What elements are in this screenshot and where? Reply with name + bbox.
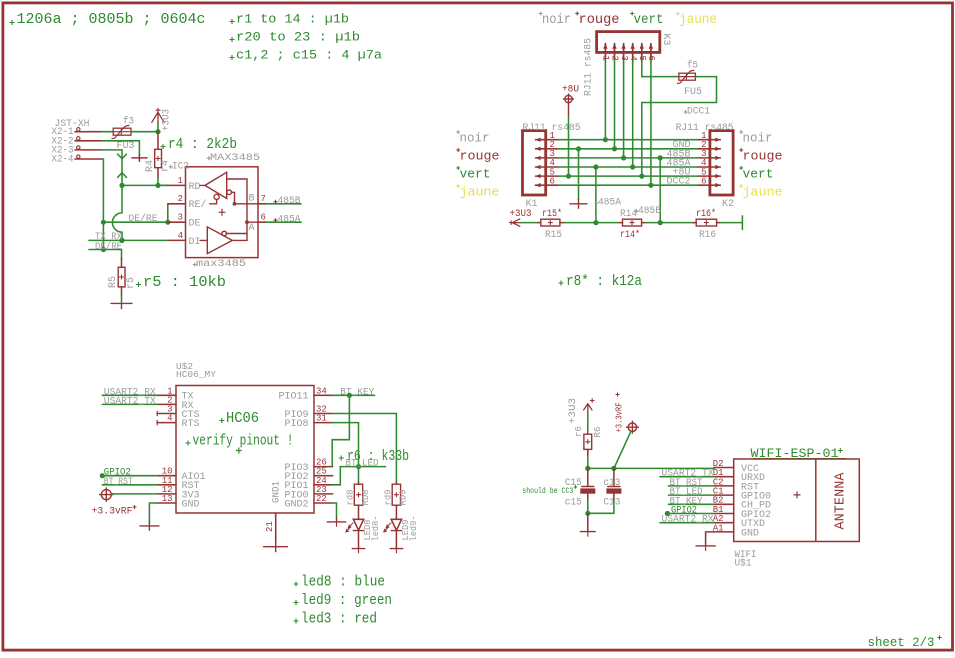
wire K3 pin1 down bbox=[604, 63, 606, 140]
label FU3 bbox=[117, 141, 135, 152]
pin 3 CTS of HC06 bbox=[157, 405, 199, 421]
label R6 bbox=[592, 426, 603, 437]
wire 485B drop bbox=[659, 158, 661, 223]
pin A2 UTXD of ESP bbox=[713, 514, 765, 530]
label R15 bbox=[545, 230, 562, 241]
svg-text:B: B bbox=[249, 193, 255, 204]
resistor R14 bbox=[619, 219, 644, 226]
node junction bbox=[593, 164, 598, 169]
note text c1,2 ; c15 : 4 u7a bbox=[230, 47, 383, 62]
pin C2 RST of ESP bbox=[713, 477, 759, 493]
pin 3 DE of IC2 bbox=[168, 213, 201, 230]
svg-text:noir: noir bbox=[460, 131, 490, 146]
label IC2 bbox=[169, 161, 189, 172]
svg-text:1: 1 bbox=[601, 56, 611, 61]
node junction bbox=[630, 164, 635, 169]
svg-text:U$1: U$1 bbox=[735, 557, 752, 569]
driver triangle inside IC2 bbox=[200, 227, 232, 254]
label r16* bbox=[696, 208, 716, 220]
label C15 bbox=[565, 478, 582, 489]
pin 34 PIO11 of HC06 bbox=[278, 386, 332, 402]
pin 4 of K3 bbox=[628, 43, 638, 62]
wire K3 pin2 down bbox=[614, 63, 616, 149]
svg-text:rouge: rouge bbox=[460, 149, 500, 164]
wire K3 pin5 to fuse FU5 bbox=[642, 63, 679, 77]
svg-text:7: 7 bbox=[261, 194, 266, 204]
wire DE/RE to gate pins bbox=[103, 221, 167, 223]
svg-text:HC06_MY: HC06_MY bbox=[176, 369, 216, 380]
label U$1 bbox=[735, 557, 752, 569]
resistor R6 bbox=[584, 431, 592, 468]
pin 21 GND1 of HC06 bbox=[265, 481, 283, 542]
wire fuse F3 to +3V3 node bbox=[131, 131, 158, 133]
svg-text:6: 6 bbox=[701, 176, 706, 186]
pin 32 PIO9 of HC06 bbox=[284, 405, 332, 421]
resistor R16 bbox=[693, 219, 720, 226]
svg-text:f5: f5 bbox=[687, 60, 698, 72]
internal net B bbox=[227, 179, 259, 240]
wire VCC row to ESP bbox=[588, 467, 714, 469]
node junction bbox=[639, 174, 644, 179]
colour word vert side bbox=[456, 166, 490, 182]
svg-text:485A: 485A bbox=[278, 215, 301, 226]
svg-text:X2-4: X2-4 bbox=[52, 155, 74, 166]
wire TX_RX from edge bbox=[89, 239, 168, 241]
svg-text:R14: R14 bbox=[620, 209, 637, 220]
pin 6 of K1 bbox=[535, 176, 558, 187]
svg-text:r15*: r15* bbox=[542, 208, 562, 220]
label c13 bbox=[603, 478, 620, 489]
svg-text:6: 6 bbox=[646, 56, 656, 61]
node 485A on row bbox=[593, 220, 598, 225]
wire pin32 to RD9 bbox=[333, 414, 397, 483]
label DE/RE edge bbox=[95, 241, 122, 253]
svg-text:led8-: led8- bbox=[370, 516, 381, 542]
svg-text:MAX3485: MAX3485 bbox=[210, 153, 260, 164]
net USART2_RX bbox=[102, 387, 157, 398]
resistor RD9 bbox=[392, 482, 400, 519]
note text verify pinout ! bbox=[186, 432, 294, 449]
note text r20 to 23 : u1b bbox=[230, 29, 361, 44]
svg-text:GND: GND bbox=[182, 499, 200, 510]
node DE/RE top junction bbox=[101, 220, 106, 225]
net USART2_TX bbox=[102, 396, 157, 407]
node junction bbox=[612, 146, 617, 151]
svg-text:+3.3vRF: +3.3vRF bbox=[92, 507, 133, 518]
pin 4 RTS of HC06 bbox=[157, 414, 199, 430]
pin A1 GND of ESP bbox=[713, 523, 759, 539]
svg-text:RD8: RD8 bbox=[360, 489, 371, 505]
svg-text:RD9: RD9 bbox=[398, 489, 409, 505]
svg-text:rouge: rouge bbox=[579, 12, 620, 28]
pin 1 of K2 bbox=[698, 131, 721, 142]
svg-text:A: A bbox=[249, 223, 255, 234]
pin 2 of K2 bbox=[698, 140, 721, 151]
net BT_KEY at pin34 bbox=[333, 387, 375, 398]
note text r1 to 14 : u1b bbox=[230, 11, 350, 26]
svg-text:6: 6 bbox=[550, 176, 555, 186]
svg-text:USART2_TX: USART2_TX bbox=[104, 396, 156, 407]
wire X2-4 down bbox=[102, 159, 103, 250]
wire K3 pin3 down bbox=[623, 63, 625, 158]
pin C1 GPIO0 of ESP bbox=[713, 487, 771, 503]
label K2 bbox=[722, 199, 734, 210]
pin X2-1 bbox=[75, 128, 102, 132]
colour word noir side bbox=[739, 130, 772, 146]
wire pin31 to RD8 bbox=[333, 423, 359, 482]
label c15 bbox=[565, 497, 582, 508]
label C13 bbox=[603, 497, 620, 508]
net GPIO2 at ESP bbox=[665, 506, 714, 517]
net BT_KEY at ESP bbox=[669, 496, 714, 507]
svg-text:BT_KEY: BT_KEY bbox=[340, 387, 374, 398]
pin 3 of K2 bbox=[698, 149, 721, 160]
label rd9 bbox=[382, 489, 393, 505]
pin 25 PIO2 of HC06 bbox=[284, 467, 332, 483]
bubble receiver out bbox=[227, 190, 235, 195]
label RJ11 rs485 above K2 bbox=[676, 123, 734, 134]
node junction bbox=[621, 155, 626, 160]
svg-text:+3U3: +3U3 bbox=[510, 209, 532, 220]
svg-text:rd8: rd8 bbox=[345, 489, 356, 505]
svg-text:RJ11 rs485: RJ11 rs485 bbox=[584, 38, 595, 96]
node VCC junction R6 bbox=[585, 466, 590, 471]
note text led3 : red bbox=[294, 611, 378, 628]
net label 485B at K2 bbox=[666, 149, 690, 160]
internal net A bbox=[232, 220, 258, 240]
pin 3 of K3 bbox=[619, 43, 629, 62]
svg-text:ANTENNA: ANTENNA bbox=[833, 472, 848, 530]
node junction bbox=[576, 146, 581, 151]
colour word vert top bbox=[630, 12, 663, 29]
label f3 bbox=[123, 116, 134, 128]
node DE/RE bottom junction bbox=[101, 247, 106, 252]
svg-text:C13: C13 bbox=[603, 497, 620, 508]
pin D2 VCC of ESP bbox=[713, 459, 759, 475]
capacitor C15 bbox=[580, 468, 595, 513]
wire BT_KEY to pin26 bbox=[332, 395, 349, 466]
label R16 bbox=[699, 230, 716, 241]
label FU5 bbox=[684, 87, 702, 98]
label K3 bbox=[660, 34, 671, 46]
svg-text:DI: DI bbox=[189, 237, 201, 248]
svg-text:PIO8: PIO8 bbox=[284, 419, 308, 430]
supply +3V3 arrow left bbox=[509, 209, 532, 226]
svg-text:led8 : blue: led8 : blue bbox=[301, 574, 385, 591]
svg-text:DCC1: DCC1 bbox=[687, 107, 710, 118]
svg-text:R6: R6 bbox=[592, 426, 603, 437]
node junction bbox=[648, 183, 653, 188]
net 485B stub bbox=[267, 196, 302, 207]
label led9- bbox=[408, 516, 419, 542]
pin X2-2 bbox=[75, 137, 102, 141]
svg-text:DCC2: DCC2 bbox=[666, 177, 690, 188]
svg-text:1206a ; 0805b ; 0604c: 1206a ; 0805b ; 0604c bbox=[17, 11, 206, 28]
svg-text:noir: noir bbox=[542, 12, 571, 28]
svg-text:r20 to 23 : µ1b: r20 to 23 : µ1b bbox=[236, 29, 360, 44]
LED LED9 bbox=[384, 519, 402, 532]
svg-text:led3 : red: led3 : red bbox=[301, 611, 377, 628]
pin 5 of K2 bbox=[698, 167, 721, 178]
svg-text:3: 3 bbox=[178, 213, 183, 223]
svg-text:vert: vert bbox=[743, 167, 774, 182]
svg-text:vert: vert bbox=[460, 167, 491, 182]
IC2 origin cross bbox=[219, 209, 226, 216]
ground below LED9 bbox=[390, 531, 402, 553]
svg-text:1: 1 bbox=[178, 176, 183, 186]
supply +3.3vRF circle left bbox=[100, 488, 113, 501]
svg-text:485A: 485A bbox=[598, 198, 621, 209]
wire K3 pin4 down bbox=[632, 63, 634, 168]
node junction bbox=[603, 137, 608, 142]
svg-text:jaune: jaune bbox=[460, 185, 500, 200]
wire K1-5 to K2-5 bbox=[559, 175, 698, 177]
label f5 bbox=[687, 60, 698, 72]
note text WIFI-ESP-01 bbox=[751, 446, 846, 461]
svg-text:+8U: +8U bbox=[562, 84, 579, 95]
label max3485 bbox=[193, 259, 246, 270]
colour word noir side bbox=[456, 130, 489, 146]
ESP origin cross bbox=[794, 491, 801, 498]
svg-text:noir: noir bbox=[743, 131, 773, 146]
label rd8 bbox=[345, 489, 356, 505]
pin 26 PIO3 of HC06 bbox=[284, 458, 332, 474]
pin 11 RST of HC06 bbox=[157, 476, 199, 492]
HC06 origin cross bbox=[236, 448, 242, 454]
ground below R5 bbox=[111, 296, 132, 309]
svg-text:DE/RE: DE/RE bbox=[95, 241, 122, 253]
pin 3 of K1 bbox=[535, 149, 558, 160]
pin 1 of K3 bbox=[601, 43, 611, 62]
ground below LED8 bbox=[352, 531, 364, 553]
svg-text:r4: r4 bbox=[160, 160, 171, 172]
svg-text:jaune: jaune bbox=[679, 12, 717, 28]
svg-text:BT_RST: BT_RST bbox=[104, 477, 133, 488]
bubble driver enable bbox=[222, 231, 227, 236]
connector K1 RJ11 body bbox=[523, 131, 546, 195]
colour word rouge side bbox=[739, 148, 782, 164]
label r4 bbox=[160, 160, 171, 172]
svg-text:R4: R4 bbox=[145, 160, 156, 172]
net label DCC2 at K2 bbox=[666, 177, 690, 188]
pin 12 3V3 of HC06 bbox=[157, 485, 199, 501]
net 485A stub bbox=[267, 215, 302, 226]
net BT_LED wire bbox=[333, 467, 386, 485]
svg-text:5: 5 bbox=[637, 56, 647, 61]
label RD8 bbox=[360, 489, 371, 505]
node 485B on row bbox=[658, 220, 663, 225]
note text led9 : green bbox=[294, 592, 393, 609]
svg-text:r6 : k33b: r6 : k33b bbox=[347, 448, 409, 465]
pin 2 of K3 bbox=[610, 43, 620, 62]
colour word rouge side bbox=[456, 148, 499, 164]
svg-text:6: 6 bbox=[261, 213, 266, 223]
module U$2 HC06 body bbox=[176, 386, 314, 514]
pin 4 of K1 bbox=[535, 158, 558, 169]
pin D1 URXD of ESP bbox=[713, 468, 765, 484]
wire termination row bbox=[520, 222, 742, 224]
node TX_RX junction bbox=[119, 238, 124, 243]
pin 6 of K3 bbox=[646, 43, 656, 62]
wire junction to R4/RD bbox=[122, 184, 168, 186]
supply +8V symbol bbox=[562, 84, 579, 104]
svg-text:RD: RD bbox=[189, 182, 201, 193]
svg-text:c13: c13 bbox=[603, 478, 620, 489]
wire X2-2 down to cross marker bbox=[102, 141, 139, 155]
svg-text:R16: R16 bbox=[699, 230, 716, 241]
label R14 bbox=[620, 209, 637, 220]
ground from pin22 GND2 bbox=[327, 503, 346, 526]
label R4 bbox=[145, 160, 156, 172]
pin 23 PIO0 of HC06 bbox=[284, 485, 332, 501]
label r14* bbox=[620, 229, 640, 241]
wire FU5 return to +8U row bbox=[642, 77, 717, 177]
wire 485A drop bbox=[595, 167, 597, 223]
wire K1-1 to K2-1 bbox=[559, 139, 698, 141]
node junction bbox=[658, 155, 663, 160]
label r6 bbox=[573, 426, 584, 437]
pin X2-3 bbox=[75, 146, 102, 150]
svg-text:3: 3 bbox=[619, 56, 629, 61]
connector K2 RJ11 body bbox=[710, 131, 733, 195]
svg-text:R15: R15 bbox=[545, 230, 562, 241]
note text 1206a ; 0805b ; 0604c bbox=[10, 11, 206, 28]
wire junction to RD pin bbox=[158, 184, 168, 186]
wire K3 pin6 down bbox=[650, 63, 652, 186]
pin 2 RE/ of IC2 bbox=[168, 194, 207, 211]
note text should be CC3 bbox=[522, 485, 577, 496]
label +3U3 vertical ESP bbox=[568, 398, 579, 424]
LED LED8 bbox=[346, 519, 364, 532]
net USART2_RX at ESP bbox=[660, 515, 714, 526]
pin 4 DI of IC2 bbox=[168, 231, 201, 248]
label r5 bbox=[126, 277, 137, 289]
pin 13 GND of HC06 bbox=[157, 494, 199, 510]
svg-text:jaune: jaune bbox=[743, 185, 783, 200]
svg-text:c15: c15 bbox=[565, 497, 582, 508]
svg-text:rd9: rd9 bbox=[382, 489, 393, 505]
resistor R15 bbox=[538, 219, 563, 226]
wire K1-4 to K2-4 bbox=[559, 166, 698, 168]
pin 2 RX of HC06 bbox=[157, 395, 193, 411]
svg-text:DE/RE: DE/RE bbox=[129, 213, 158, 225]
svg-text:485B: 485B bbox=[278, 196, 301, 207]
wire hop over DE/RE bbox=[112, 213, 122, 241]
svg-text:RTS: RTS bbox=[182, 419, 200, 430]
label LED8 bbox=[362, 519, 373, 540]
svg-text:13: 13 bbox=[162, 494, 173, 504]
node caps junction bbox=[585, 511, 590, 516]
module U$2 HC06 labels bbox=[176, 361, 216, 380]
label +3.3vRF vertical bbox=[615, 393, 625, 433]
label MAX3485 bbox=[207, 153, 260, 164]
svg-text:r4 : 2k2b: r4 : 2k2b bbox=[168, 136, 237, 153]
svg-text:+3.3vRF: +3.3vRF bbox=[615, 403, 625, 433]
node RD wire junction on X2-3 drop bbox=[119, 183, 124, 188]
label K1 bbox=[526, 199, 538, 210]
connector K3 RJ11 body bbox=[597, 32, 660, 53]
svg-text:r6: r6 bbox=[573, 426, 584, 437]
colour word vert side bbox=[739, 166, 773, 182]
label RJ11 rs485 vertical K3 bbox=[584, 38, 595, 96]
pin 2 of K1 bbox=[535, 140, 558, 151]
note text HC06 bbox=[219, 410, 259, 427]
wire +8V down bbox=[568, 105, 570, 177]
node BT_LED junction bbox=[356, 464, 361, 469]
pin 1 RD of IC2 bbox=[168, 176, 201, 193]
svg-text:+3U3: +3U3 bbox=[162, 109, 173, 131]
ground below HC06 GND1 bbox=[264, 542, 288, 552]
wire +3.3vRF to pin12 bbox=[111, 493, 157, 495]
note text led8 : blue bbox=[294, 574, 386, 591]
wire row end tick bbox=[741, 216, 743, 230]
pin 1 of K1 bbox=[535, 131, 558, 142]
svg-text:R5: R5 bbox=[108, 276, 119, 288]
node VCC junction C13 bbox=[611, 466, 616, 471]
label +3.3vRF left bbox=[92, 505, 137, 518]
svg-text:HC06: HC06 bbox=[226, 410, 259, 427]
svg-text:GND2: GND2 bbox=[284, 499, 308, 510]
op-amp U1 IC2 MAX3485 body bbox=[186, 167, 259, 258]
svg-text:f3: f3 bbox=[123, 116, 134, 128]
svg-text:vert: vert bbox=[634, 12, 664, 28]
net USART2_TX at ESP bbox=[660, 469, 714, 480]
wire X2-1 to fuse F3 bbox=[102, 131, 113, 133]
fuse F3 bbox=[112, 125, 132, 138]
svg-text:4: 4 bbox=[167, 414, 172, 424]
pin 6 A of IC2 bbox=[249, 213, 267, 234]
wire +3.3vRF diagonal bbox=[614, 431, 631, 468]
svg-text:RE/: RE/ bbox=[189, 199, 207, 211]
colour word jaune side bbox=[456, 184, 499, 200]
svg-text:r14*: r14* bbox=[620, 229, 640, 241]
wire K1-2 to K2-2 bbox=[559, 148, 698, 150]
svg-text:GND1: GND1 bbox=[272, 481, 283, 503]
svg-text:21: 21 bbox=[265, 521, 275, 532]
net BT_RST at ESP bbox=[669, 478, 714, 489]
node BT_KEY junction bbox=[347, 393, 352, 398]
pin 6 of K2 bbox=[698, 176, 721, 187]
bubble RE enable bbox=[210, 194, 219, 204]
pin 5 of K3 bbox=[637, 43, 647, 62]
label DCC1 bbox=[684, 107, 711, 118]
connector X2 JST-XH labels bbox=[52, 119, 90, 166]
node junction bbox=[566, 174, 571, 179]
fuse FU5 bbox=[677, 70, 695, 83]
label BT_LED bbox=[346, 459, 379, 470]
wire K1-6 to K2-6 bbox=[559, 184, 698, 186]
pin 31 PIO8 of HC06 bbox=[284, 414, 332, 430]
node RE/DE tie junction bbox=[165, 220, 170, 225]
svg-text:+3U3: +3U3 bbox=[568, 398, 579, 424]
colour word rouge top bbox=[575, 12, 619, 29]
net GPIO2 left bbox=[100, 468, 157, 479]
pin 7 B of IC2 bbox=[249, 193, 267, 204]
pin X2-4 bbox=[75, 155, 102, 159]
ground below caps bbox=[580, 513, 595, 536]
ground drop from K row GND bbox=[570, 149, 587, 208]
svg-text:31: 31 bbox=[316, 414, 327, 424]
svg-text:r1 to 14 : µ1b: r1 to 14 : µ1b bbox=[236, 11, 349, 26]
net label +8U at K2 bbox=[672, 168, 690, 179]
svg-text:USART2_RX: USART2_RX bbox=[662, 515, 714, 526]
label WIFI bbox=[735, 550, 757, 561]
svg-text:K2: K2 bbox=[722, 199, 734, 210]
svg-text:4: 4 bbox=[178, 231, 183, 241]
net label GND at K2 bbox=[672, 140, 690, 151]
svg-text:22: 22 bbox=[316, 494, 327, 504]
net BT_RST left bbox=[102, 477, 157, 488]
